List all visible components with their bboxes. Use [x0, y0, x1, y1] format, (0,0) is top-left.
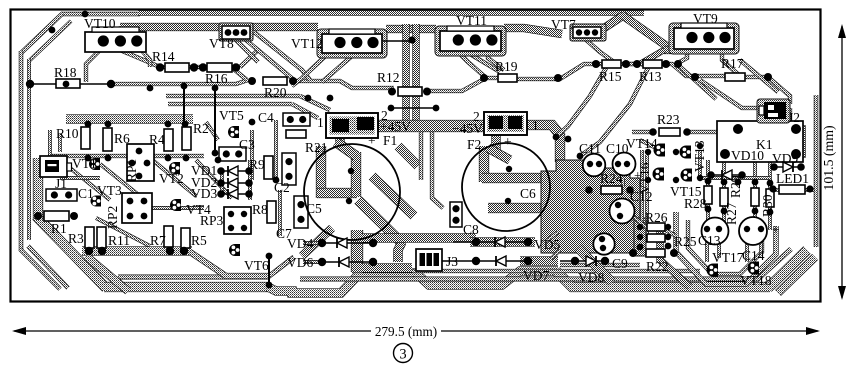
transistor VT1 — [89, 158, 100, 170]
resistor R4 — [164, 129, 173, 151]
svg-text:R20: R20 — [264, 85, 287, 100]
resistor R6 — [103, 128, 112, 151]
wire bottom inner 2 — [300, 249, 791, 279]
diode VD5 — [495, 237, 505, 247]
wire BR step 2 — [660, 230, 690, 287]
wire VD5 wire — [453, 241, 528, 243]
wire LB band diag — [86, 256, 128, 291]
pads right mesh pads — [705, 178, 712, 185]
capacitor C5 — [304, 144, 400, 240]
transistor VT6 — [229, 244, 240, 256]
pads RP2 pads — [127, 198, 134, 205]
svg-text:R26: R26 — [645, 210, 668, 225]
wire VD2 wire — [221, 182, 249, 184]
wire VD4 wire — [322, 242, 373, 244]
pads VD10 diode pads — [707, 171, 715, 179]
wire BR corner extra — [778, 257, 815, 293]
svg-text:C6: C6 — [520, 186, 536, 201]
wire BR step 1 — [578, 248, 612, 282]
pads R13 pads — [662, 60, 670, 68]
wire top band left — [120, 23, 318, 31]
wire J3 band bottom — [362, 263, 412, 272]
transistor VT2 — [169, 162, 180, 174]
resistor R3 — [85, 227, 94, 248]
pads R20 pads — [248, 77, 256, 85]
svg-text:C9: C9 — [612, 256, 628, 271]
svg-text:3: 3 — [399, 347, 406, 363]
wire VT9 halo — [669, 23, 739, 54]
svg-text:R2: R2 — [193, 121, 209, 136]
wire VT8 diag 3 — [254, 32, 310, 80]
svg-text:VD7: VD7 — [523, 268, 549, 283]
wire VD8 wire — [560, 260, 605, 262]
wire K1-J2 — [788, 108, 792, 122]
pad VT5 pad top — [212, 85, 219, 92]
svg-text:C8: C8 — [463, 222, 479, 237]
svg-text:RP2: RP2 — [105, 206, 120, 229]
svg-text:VT9: VT9 — [693, 11, 718, 26]
potentiometer RP3 — [224, 207, 251, 234]
wire C5 entry — [335, 132, 344, 148]
wire BR loop — [676, 212, 776, 284]
wire C6 band 1 — [482, 173, 550, 183]
relay K1 — [717, 121, 803, 162]
transistor VT14a — [654, 144, 665, 157]
wire TR diag 1 — [740, 60, 778, 92]
diode VD9 diode — [783, 162, 793, 172]
pads VD1 pads — [217, 167, 225, 175]
pads R10 R6 pads — [85, 121, 92, 128]
svg-text:VT10: VT10 — [84, 16, 116, 31]
capacitor C4 — [283, 113, 310, 126]
wire VT11 drop — [452, 46, 484, 76]
wire VT11 halo — [435, 26, 506, 56]
pads via set C — [645, 149, 651, 155]
capacitor C13 — [702, 218, 729, 245]
wire top band mid — [386, 25, 436, 33]
fuse F2 — [484, 112, 527, 135]
capacitor C6 — [462, 143, 550, 231]
transistor VT12 — [322, 34, 382, 53]
pads VD5 pads — [472, 238, 480, 246]
wire R23-K1 — [686, 130, 718, 134]
wire VT10 band drop — [119, 26, 129, 44]
resistor R18 — [56, 79, 80, 88]
svg-text:VT5: VT5 — [219, 108, 244, 123]
wire VT12 rail wire — [383, 40, 412, 42]
wire LB diag5 — [196, 160, 232, 198]
pads via set B — [553, 134, 560, 141]
wire C8 col b — [419, 132, 423, 180]
svg-text:1: 1 — [317, 115, 324, 130]
wire C6 top arm — [488, 148, 510, 160]
wire C6 left bar — [479, 146, 489, 182]
wire rail vertical A — [402, 24, 409, 121]
wire LB bottom band — [82, 246, 192, 255]
pads VT6 wire pads — [266, 253, 273, 260]
resistor R5 — [181, 228, 190, 248]
wire outer left 2 — [27, 59, 31, 240]
svg-text:RP3: RP3 — [200, 213, 224, 228]
wire bottom band left — [104, 282, 270, 292]
wire LB c2 col — [274, 120, 278, 180]
wire C12 mesh — [630, 214, 646, 227]
potentiometer RP1 — [127, 144, 154, 181]
capacitor C7 — [294, 196, 308, 228]
svg-text:C14: C14 — [742, 248, 765, 263]
wire VT9 drop — [640, 50, 664, 64]
transistor C3 — [228, 126, 239, 138]
svg-text:F2: F2 — [467, 137, 481, 152]
capacitor C11 — [583, 154, 606, 177]
wire mid row b — [168, 102, 292, 106]
wire VD10 wire — [711, 174, 742, 176]
wire R20-R12 row — [293, 81, 394, 88]
pads VD8 pads — [571, 257, 579, 265]
svg-text:R7: R7 — [150, 233, 166, 248]
resistor R28a — [704, 186, 712, 204]
svg-text:+: + — [772, 222, 780, 237]
wire C5 exit diag2 — [372, 176, 414, 216]
svg-text:R17: R17 — [721, 56, 744, 71]
transistor VT9 — [674, 28, 734, 49]
wire VT5 wire — [214, 88, 216, 153]
wire mid diag a — [300, 96, 330, 110]
svg-text:−45V: −45V — [452, 121, 483, 136]
svg-text:VD5: VD5 — [534, 237, 560, 252]
connector J1 — [40, 156, 67, 177]
diode VD3 — [228, 189, 238, 199]
resistor R22 — [646, 249, 665, 257]
wire VD7 wire — [441, 260, 528, 262]
wire K1 inner — [724, 127, 804, 156]
wire VD1 wire — [221, 170, 249, 172]
transistor VT14b — [680, 146, 691, 159]
wire bottom inner 3 — [352, 269, 700, 273]
wire LB r9 col — [250, 130, 254, 180]
wire LB row mid2 — [152, 206, 204, 210]
svg-text:F1: F1 — [383, 133, 397, 148]
wire R29 col b — [768, 158, 772, 230]
pads VD6 pads — [318, 258, 326, 266]
wire VT8 diag 1 — [246, 40, 294, 80]
capacitor C10 — [613, 153, 636, 176]
wire R15-R13 row — [620, 62, 644, 66]
svg-text:R15: R15 — [599, 69, 622, 84]
resistor R26a — [647, 223, 665, 231]
dimension vertical 101.5 mm — [841, 26, 843, 298]
wire C14 col b — [759, 234, 763, 256]
wire VD6 wire — [322, 261, 373, 263]
svg-text:VT17: VT17 — [712, 250, 744, 265]
transistor VT7 — [570, 24, 606, 41]
svg-text:R11: R11 — [108, 233, 130, 248]
wire outer top thick — [138, 10, 644, 16]
wire VD3 wire — [221, 193, 249, 195]
wire R23 row — [632, 130, 654, 134]
svg-text:R14: R14 — [152, 49, 175, 64]
pads R15 pads — [592, 60, 600, 68]
wire C13 col b — [717, 234, 721, 258]
pads R23 pads — [649, 128, 657, 136]
wire VD col b — [248, 174, 252, 196]
wire VT12 drop — [292, 48, 334, 86]
resistor R11 — [97, 227, 106, 248]
transistor VT16a — [653, 168, 664, 181]
pads VD7 pads — [472, 257, 480, 265]
pads R24 pads — [585, 186, 593, 194]
resistor R24 — [601, 186, 622, 194]
resistor R19 — [498, 74, 517, 82]
pads F1-F2 wire pads — [388, 105, 395, 112]
svg-text:R28: R28 — [684, 196, 707, 211]
wire J3 band top — [362, 233, 476, 242]
wire VT13 mesh — [698, 150, 702, 178]
resistor R1 — [44, 211, 69, 221]
svg-text:+45V: +45V — [380, 119, 411, 134]
wire VT16 col a — [640, 150, 644, 230]
wire bottom inner 1 — [118, 257, 294, 277]
pads R22 pads — [629, 249, 637, 257]
resistor R21 — [286, 130, 306, 138]
wire bottom right rise — [556, 271, 770, 287]
resistor R15 — [602, 60, 621, 68]
transistor VT4 — [170, 199, 181, 211]
svg-text:C3: C3 — [239, 137, 255, 152]
resistor R7 — [164, 226, 173, 247]
svg-text:LED1: LED1 — [776, 171, 809, 186]
svg-text:VD8: VD8 — [578, 270, 604, 285]
wire top band mid2 — [504, 28, 562, 34]
wire LB diag2 — [100, 164, 150, 204]
capacitor C8 — [450, 202, 462, 227]
wire R2 wire — [183, 86, 185, 127]
resistor R26b — [647, 234, 665, 242]
svg-text:VT2: VT2 — [159, 171, 184, 186]
wire LB bot rail — [48, 154, 204, 158]
connector J2 halo — [757, 99, 790, 123]
resistor R16 — [207, 63, 232, 72]
resistor R29a — [751, 188, 759, 206]
connector J2 — [759, 106, 764, 115]
pad VT5 pad bot — [212, 150, 219, 157]
wire C8 col a — [432, 132, 443, 208]
svg-text:VD4: VD4 — [287, 236, 313, 251]
wire R15 R13 pads — [628, 62, 638, 66]
wire VD col a — [220, 174, 224, 196]
wire bottom valley 1 — [268, 273, 370, 293]
wire LED wire — [770, 188, 779, 192]
diode VD1 — [228, 166, 238, 176]
wire VT9 drop right — [722, 44, 740, 76]
wire R12-R19 row — [424, 78, 500, 91]
resistor R23 — [659, 128, 680, 136]
capacitor C2 — [282, 153, 296, 185]
wire C14 col a — [745, 234, 749, 262]
transistor VT3 — [91, 196, 102, 207]
svg-text:R13: R13 — [639, 69, 662, 84]
svg-text:VT8: VT8 — [209, 36, 234, 51]
wire rail F1-F2 band — [378, 120, 484, 132]
pads RP3 pads — [228, 211, 234, 217]
wire LB diag1 — [60, 160, 110, 200]
svg-text:R19: R19 — [495, 59, 518, 74]
pads via set A — [82, 11, 89, 18]
wire left thick vertical — [33, 158, 43, 220]
wire outer top-left bevel — [21, 13, 63, 53]
wire LB bottom jog — [190, 252, 268, 276]
resistor LED1 — [779, 185, 805, 194]
svg-text:VT6: VT6 — [244, 258, 269, 273]
svg-text:279.5 (mm): 279.5 (mm) — [375, 324, 437, 339]
wire C5 top arm — [336, 142, 356, 156]
transistor VT17 — [707, 264, 718, 277]
svg-text:R8: R8 — [252, 202, 268, 217]
wire LB top rail — [66, 114, 193, 123]
wire R17 right — [743, 75, 768, 79]
wire R13 down — [580, 68, 648, 156]
resistor R9 — [264, 156, 273, 179]
diode VD4 — [337, 238, 347, 248]
resistor R12 — [398, 87, 422, 96]
wire R26 right — [662, 228, 676, 236]
pads R12 pads — [388, 88, 396, 96]
transistor VT18 — [748, 262, 759, 275]
resistor R14 — [165, 63, 189, 72]
pads VD3 pads — [217, 190, 225, 198]
wire VD7 right — [551, 250, 560, 259]
wire bottom inner 4 — [560, 263, 640, 267]
svg-text:C5: C5 — [306, 201, 322, 216]
wire R14-R16 link — [188, 65, 208, 69]
svg-text:C13: C13 — [698, 233, 721, 248]
wire LB col — [206, 122, 218, 140]
wire power plane column — [634, 218, 646, 256]
svg-text:R1: R1 — [51, 221, 67, 236]
wire VT9 drop left — [676, 44, 687, 64]
diode VD2 — [228, 178, 238, 188]
wire R18 wire2 — [78, 83, 113, 85]
wire R14 feed — [120, 50, 166, 67]
wire R18 wire — [30, 83, 60, 85]
wire top diag to VT9 — [622, 15, 668, 47]
wire rail F2 right — [524, 125, 560, 162]
wire R28 col a — [706, 160, 710, 228]
resistor R17 — [725, 73, 745, 81]
wire C5 exit left — [302, 228, 332, 256]
wire LB diag3 — [150, 158, 196, 196]
wire bottom mid — [368, 268, 418, 277]
transistor VT11 — [440, 31, 501, 51]
wire F1-F2 wire — [391, 107, 436, 109]
wire power plane block — [541, 160, 640, 253]
wire bottom valley 2 — [416, 271, 558, 285]
svg-text:R16: R16 — [205, 71, 228, 86]
pads R26 pads — [637, 224, 643, 230]
wire R13-R17 row — [660, 64, 726, 76]
pads R19 pads — [480, 74, 488, 82]
wire bottom band bevel right — [768, 250, 807, 288]
capacitor C9 — [593, 233, 614, 254]
wire VT7 drop — [584, 38, 614, 62]
svg-text:+: + — [368, 133, 376, 148]
capacitor C12 — [610, 199, 635, 224]
pads VD9 diode pads — [770, 163, 778, 171]
transistor VT10 — [85, 32, 146, 52]
wire C13 col a — [705, 234, 709, 262]
svg-text:VD6: VD6 — [287, 255, 313, 270]
wire VT9 band — [664, 46, 726, 54]
pads bottom row pads — [85, 247, 93, 255]
wire outer bottom-left bevel — [20, 249, 60, 289]
wire VT10 left drop — [86, 46, 104, 82]
figure number 3 — [394, 344, 413, 363]
dimension horizontal 279.5 mm — [14, 330, 371, 332]
pads VD2 pads — [217, 179, 225, 187]
wire VT16 col b — [645, 155, 649, 235]
wire VD5 right — [545, 232, 558, 242]
svg-text:R27: R27 — [724, 202, 739, 225]
svg-text:J2: J2 — [788, 110, 800, 125]
wire bottom band bevel left — [36, 216, 106, 288]
wire top diag up — [598, 15, 624, 32]
wire R13-K1 diag — [678, 65, 716, 99]
svg-text:R3: R3 — [68, 231, 84, 246]
pads R17 pads — [691, 73, 699, 81]
wire mid diag b — [292, 104, 318, 118]
pads VD4 pads — [318, 239, 326, 247]
wire C6 entry — [491, 130, 500, 150]
wire VT11 drop3 — [470, 54, 500, 72]
wire LB j1 col2 — [58, 134, 62, 152]
wire R19-R15 row — [515, 64, 602, 79]
svg-text:101.5 (mm): 101.5 (mm) — [821, 125, 837, 190]
wire VD column bar — [351, 230, 363, 272]
wire LB vd col — [248, 160, 252, 200]
svg-text:R18: R18 — [54, 65, 77, 80]
wire C5 left bar — [316, 146, 326, 198]
wire band to mid diag — [398, 146, 418, 166]
wire TR diag 2 — [700, 80, 762, 108]
svg-text:VT3: VT3 — [97, 183, 122, 198]
diode VD10 diode — [722, 170, 732, 180]
wire mid row a — [166, 94, 300, 98]
pad R2 wire pad — [181, 83, 188, 90]
svg-text:R5: R5 — [191, 233, 207, 248]
transistor VT8 — [219, 23, 253, 41]
svg-text:J3: J3 — [446, 254, 458, 269]
wire R28 col b — [722, 160, 726, 232]
svg-text:VT1: VT1 — [72, 156, 97, 171]
svg-text:RP1: RP1 — [124, 159, 139, 182]
wire VT8 diag 2 — [236, 40, 258, 62]
wire VD4 left link — [303, 241, 322, 245]
wire C5 mid bar — [317, 188, 357, 198]
wire C10 drop — [621, 178, 625, 186]
wire outer top-left bevel 2 — [29, 21, 71, 61]
wire VT11 drop2 — [488, 46, 504, 70]
wire LB j1 col — [48, 130, 52, 156]
wire outer right — [814, 95, 819, 247]
wire C6 band 2 — [488, 203, 550, 213]
wire VT10 right drop — [138, 46, 150, 67]
resistor R2 — [182, 127, 191, 150]
resistor R8 — [267, 201, 276, 223]
resistor R30v — [766, 189, 774, 207]
wire VD9 wire — [774, 166, 801, 168]
resistor R13 — [643, 60, 662, 68]
wire VT12 drop2 — [322, 56, 352, 82]
